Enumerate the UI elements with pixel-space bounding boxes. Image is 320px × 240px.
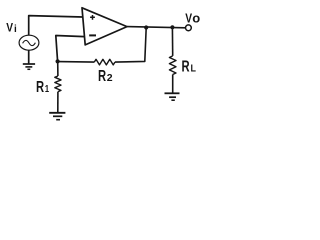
output wire op-amp apex to Vo terminal <box>127 27 186 28</box>
label R2 <box>98 66 113 85</box>
resistor R2 <box>94 59 115 65</box>
svg-text:L: L <box>191 63 196 75</box>
output terminal Vo (open circle) <box>186 25 192 31</box>
label Vi <box>6 22 17 35</box>
svg-text:V: V <box>6 22 13 35</box>
wire R2 to output node B <box>115 28 146 63</box>
wire source top to op-amp + input <box>29 16 83 36</box>
svg-text:1: 1 <box>45 83 49 94</box>
wire op-amp - input to node A <box>56 36 85 62</box>
svg-text:o: o <box>192 10 200 25</box>
node A junction dot <box>56 59 60 63</box>
node C junction dot (load) <box>170 25 174 29</box>
ground (below R1) <box>49 113 65 120</box>
wire RL to ground <box>172 75 174 93</box>
svg-text:2: 2 <box>107 72 113 84</box>
wire node C down to RL <box>171 27 173 56</box>
voltage source VS1 <box>19 35 39 50</box>
label RL <box>182 57 196 76</box>
op-amp U1 <box>82 8 127 45</box>
label Vo <box>185 10 200 25</box>
resistor R1 (with stems) <box>55 61 61 112</box>
wire node A to R2 <box>58 61 95 64</box>
ground (below source) <box>23 64 35 69</box>
label R1 <box>36 77 49 96</box>
svg-text:R: R <box>36 77 44 96</box>
ground (below RL) <box>165 93 180 100</box>
svg-text:R: R <box>98 66 106 85</box>
wire source bottom to ground <box>28 50 30 63</box>
resistor RL <box>169 56 176 75</box>
svg-text:i: i <box>14 24 17 35</box>
node B junction dot (feedback) <box>144 25 148 29</box>
svg-text:R: R <box>182 57 190 76</box>
